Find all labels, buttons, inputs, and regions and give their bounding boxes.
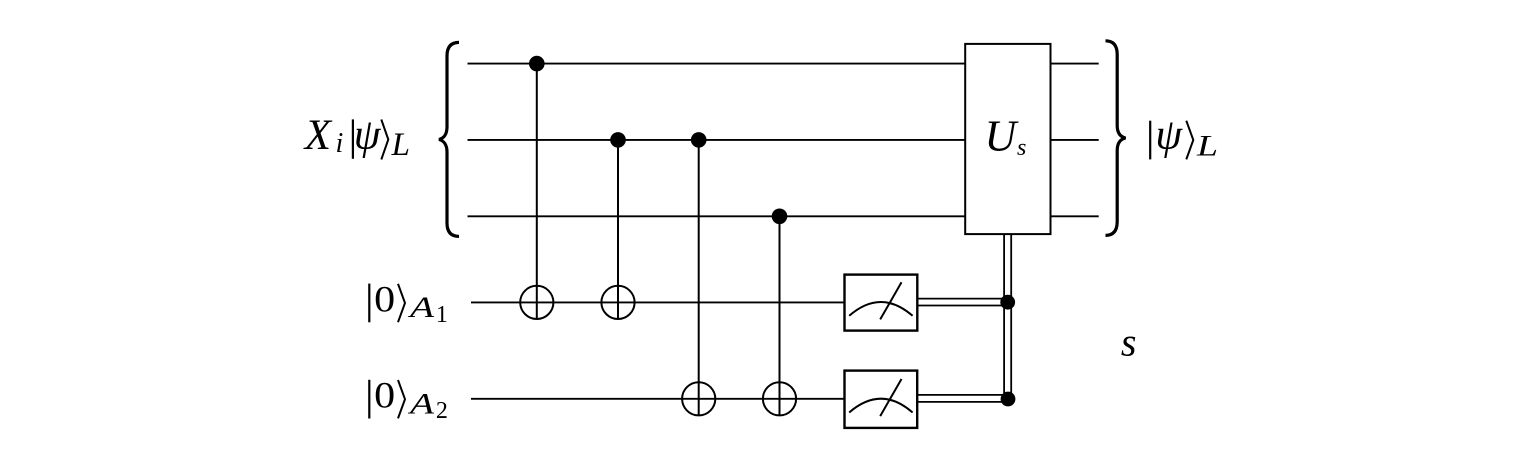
- CNOT1 control dot on q1: [529, 56, 545, 72]
- wire q2 left: [468, 139, 966, 141]
- CNOT1 target on ancilla1: [520, 286, 553, 319]
- wire ancilla2: [471, 398, 845, 400]
- box U_s: [965, 44, 1050, 234]
- left brace: [439, 42, 459, 236]
- CNOT4 control-target vertical wire: [779, 216, 781, 415]
- wire q3 left: [468, 215, 966, 217]
- CNOT2 control dot on q2: [610, 132, 626, 148]
- wire ancilla1: [471, 301, 845, 303]
- label X_i|psi>_L: [303, 112, 410, 164]
- junction dot B: [1001, 392, 1016, 407]
- CNOT2 target on ancilla1: [601, 286, 634, 319]
- measurement box M2: [845, 371, 918, 428]
- measurement box M1: [845, 275, 918, 331]
- wire q2 right: [1051, 139, 1099, 141]
- svg-text:ψ: ψ: [1155, 112, 1183, 159]
- classical double wire vertical to Us: [1004, 234, 1011, 403]
- junction dot A: [1000, 295, 1015, 310]
- label |0>_A1: [369, 279, 448, 328]
- wire q1 left: [468, 63, 966, 65]
- svg-text:0: 0: [374, 279, 395, 320]
- svg-text:ψ: ψ: [354, 112, 382, 159]
- classical double wire from M1: [917, 299, 1012, 306]
- CNOT4 target on ancilla2: [763, 382, 796, 415]
- svg-text:s: s: [1017, 135, 1026, 161]
- wire q3 right: [1051, 215, 1099, 217]
- svg-text:0: 0: [374, 376, 395, 417]
- svg-text:U: U: [985, 112, 1020, 161]
- CNOT1 control-target vertical wire: [536, 64, 538, 319]
- svg-text:1: 1: [436, 302, 448, 328]
- classical double wire from M2: [917, 395, 1012, 402]
- label |psi>_L output: [1150, 112, 1218, 163]
- CNOT3 control dot on q2: [691, 132, 707, 148]
- svg-text:L: L: [1196, 130, 1218, 163]
- CNOT3 target on ancilla2: [682, 382, 715, 415]
- wire q1 right: [1051, 63, 1099, 65]
- label |0>_A2: [369, 376, 448, 425]
- svg-text:2: 2: [436, 398, 448, 424]
- svg-text:s: s: [1121, 319, 1137, 364]
- svg-text:X: X: [303, 112, 333, 159]
- svg-text:A: A: [407, 291, 434, 324]
- CNOT2 control-target vertical wire: [617, 140, 619, 319]
- CNOT3 control-target vertical wire: [698, 140, 700, 415]
- right brace: [1106, 41, 1126, 236]
- svg-text:i: i: [336, 128, 344, 159]
- CNOT4 control dot on q3: [772, 209, 788, 225]
- svg-text:A: A: [407, 387, 434, 420]
- svg-text:L: L: [391, 127, 410, 163]
